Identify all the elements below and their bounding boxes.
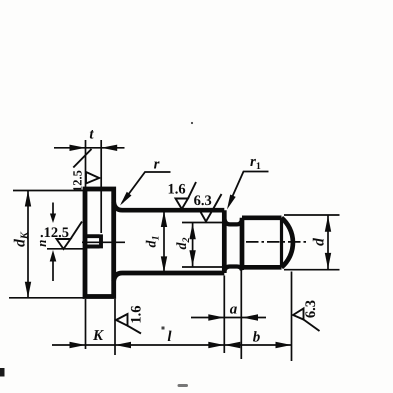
svg-text:b: b: [253, 330, 261, 346]
roughness 6.3 top symbol: [200, 211, 213, 222]
roughness 6.3 bottom right tail: [304, 320, 320, 332]
t arrow left: [70, 145, 86, 151]
svg-text:12.5: 12.5: [71, 170, 85, 192]
t extension line right (to slot bottom): [100, 140, 102, 233]
a dimension line: [191, 317, 266, 319]
neck d2 top line: [224, 219, 242, 225]
knob face: [240, 218, 245, 267]
svg-text:a: a: [230, 302, 238, 318]
leader r line: [122, 172, 171, 203]
shaft d1 bottom line with fillet: [114, 273, 225, 281]
K arrow left: [70, 342, 86, 348]
t extension line left: [85, 140, 87, 187]
d2 extension line top: [182, 222, 224, 224]
n lower arrow: [52, 261, 54, 282]
svg-text:r: r: [154, 157, 160, 173]
extension line head right bottom: [114, 299, 116, 355]
dK extension line top: [13, 190, 84, 192]
sphere tangent line: [280, 218, 283, 267]
a arrow right: [242, 314, 258, 320]
d2 extension line bottom: [182, 266, 224, 268]
scan speck left edge: [0, 368, 5, 377]
center line: [246, 241, 306, 243]
b arrow left: [224, 342, 240, 348]
t arrow right: [101, 145, 117, 151]
dK arrow bottom: [25, 282, 31, 298]
d extension line top right: [284, 214, 340, 216]
t dimension line: [54, 147, 125, 149]
knob bottom line: [242, 265, 282, 270]
leader r arrow: [120, 192, 132, 206]
roughness 1.6 bottom tail: [128, 326, 142, 334]
d dimension line: [327, 215, 329, 270]
extension line sphere apex bottom: [291, 272, 293, 362]
l arrow right: [208, 342, 224, 348]
dK arrow top: [25, 191, 31, 207]
roughness 12.5 slot tail: [71, 222, 83, 240]
K/l arrow at head right: [115, 342, 131, 348]
scan speck bottom: [178, 384, 189, 387]
dK extension line bottom: [9, 297, 84, 299]
extension line knob face bottom: [240, 270, 242, 360]
shoulder face at shaft end: [222, 210, 227, 273]
roughness 6.3 bottom right symbol: [293, 309, 304, 320]
b arrow right: [276, 342, 292, 348]
leader r1 line: [230, 172, 269, 204]
roughness 12.5 upper-left symbol: [86, 172, 99, 184]
d arrow bottom: [325, 253, 331, 269]
a arrow left: [208, 314, 224, 320]
head axis centerline stub: [82, 241, 125, 243]
roughness 1.6 bottom symbol: [116, 314, 128, 326]
svg-text:6.3: 6.3: [194, 193, 212, 209]
head outline: [85, 189, 114, 297]
scan speck top: [191, 122, 193, 124]
extension line shoulder bottom: [223, 276, 225, 354]
d2 dimension line: [192, 223, 194, 268]
d2 arrow top: [189, 223, 195, 239]
neck d2 bottom line: [224, 267, 242, 272]
d2 arrow bottom: [189, 250, 195, 266]
d1 arrow top: [161, 211, 167, 227]
bottom dimension line K l b: [52, 344, 292, 346]
slot bottom extension line: [47, 248, 85, 250]
svg-text:d: d: [311, 238, 328, 246]
d arrow top: [325, 216, 331, 232]
roughness 12.5 slot symbol: [57, 239, 71, 249]
roughness 12.5 upper-left tail: [73, 149, 91, 168]
knob top line: [242, 215, 282, 220]
extension line head left bottom: [85, 299, 87, 349]
svg-text:1.6: 1.6: [167, 182, 185, 198]
scan speck near l: [162, 327, 165, 330]
leader r1 arrow: [227, 195, 236, 210]
spherical end arc: [282, 218, 293, 267]
svg-text:1.6: 1.6: [129, 305, 145, 323]
d1 dimension line: [163, 210, 165, 273]
dK dimension line: [27, 191, 29, 298]
svg-text:K: K: [92, 328, 104, 344]
roughness 6.3 top tail: [212, 194, 221, 211]
roughness 1.6 top symbol: [176, 199, 189, 210]
roughness 1.6 top tail: [188, 182, 196, 199]
d1 arrow bottom: [161, 256, 167, 272]
d extension line bottom right: [284, 269, 340, 271]
n upper arrow: [52, 203, 54, 219]
shaft d1 top line with fillet r: [114, 202, 225, 210]
slot in head: [85, 234, 101, 248]
svg-text:6.3: 6.3: [303, 300, 319, 318]
